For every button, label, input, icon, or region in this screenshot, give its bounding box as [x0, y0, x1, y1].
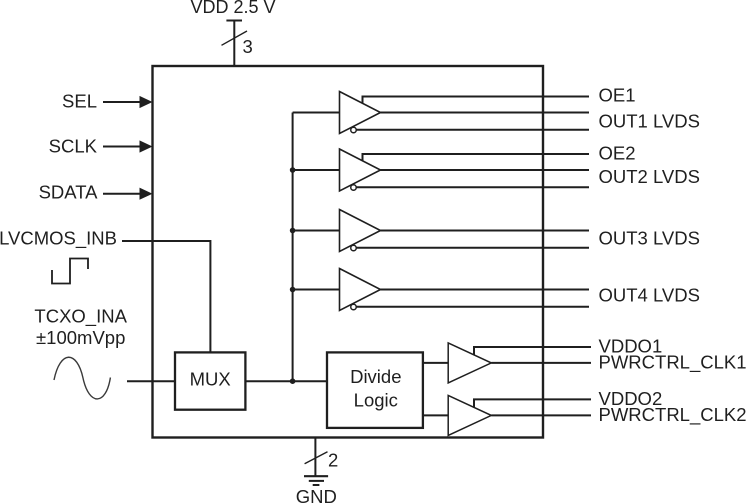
svg-text:MUX: MUX — [190, 369, 231, 390]
svg-text:GND: GND — [296, 486, 337, 504]
svg-text:OUT3 LVDS: OUT3 LVDS — [599, 227, 700, 248]
svg-text:TCXO_INA: TCXO_INA — [34, 306, 127, 328]
svg-text:OE2: OE2 — [599, 143, 636, 164]
svg-text:LVCMOS_INB: LVCMOS_INB — [0, 227, 117, 249]
svg-text:SDATA: SDATA — [39, 182, 99, 203]
svg-text:Divide: Divide — [350, 366, 401, 387]
svg-text:SCLK: SCLK — [49, 136, 98, 157]
svg-text:PWRCTRL_CLK1: PWRCTRL_CLK1 — [599, 352, 746, 374]
svg-text:3: 3 — [243, 36, 253, 57]
svg-text:OE1: OE1 — [599, 85, 636, 106]
svg-text:VDD 2.5 V: VDD 2.5 V — [191, 0, 276, 17]
svg-text:±100mVpp: ±100mVpp — [36, 327, 125, 348]
svg-text:OUT1 LVDS: OUT1 LVDS — [599, 111, 700, 132]
svg-text:2: 2 — [328, 450, 338, 471]
svg-text:OUT2 LVDS: OUT2 LVDS — [599, 166, 700, 187]
svg-text:Logic: Logic — [354, 389, 398, 410]
svg-text:PWRCTRL_CLK2: PWRCTRL_CLK2 — [599, 404, 746, 426]
svg-text:SEL: SEL — [62, 91, 97, 112]
svg-text:OUT4 LVDS: OUT4 LVDS — [599, 285, 700, 306]
